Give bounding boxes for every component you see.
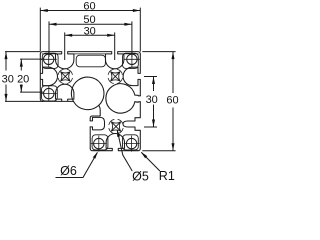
svg-text:60: 60 [83, 1, 95, 13]
svg-text:Ø6: Ø6 [60, 164, 77, 178]
svg-text:30: 30 [84, 25, 96, 37]
svg-text:Ø5: Ø5 [132, 170, 149, 183]
svg-text:30: 30 [146, 94, 158, 106]
svg-text:20: 20 [17, 73, 29, 85]
svg-text:30: 30 [2, 73, 14, 85]
svg-text:R1: R1 [159, 169, 175, 183]
svg-text:60: 60 [166, 94, 178, 106]
